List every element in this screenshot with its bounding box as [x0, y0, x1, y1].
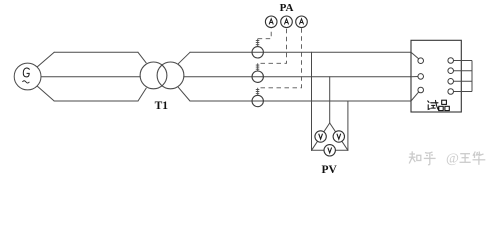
CT tap circle 1: [252, 47, 263, 58]
wire middle left horizontal: [41, 76, 140, 78]
box left terminal 1: [418, 58, 424, 64]
wire G top diagonal: [37, 52, 54, 67]
box left terminal 3: [418, 87, 424, 93]
box right terminal 1: [448, 58, 454, 64]
wire T1 left bottom diagonal: [138, 88, 146, 101]
char zhi: [410, 153, 416, 155]
svg-text:PA: PA: [280, 2, 294, 14]
CT1 winding squiggle: [256, 39, 259, 47]
char wang: [460, 153, 470, 155]
char hu: [425, 152, 433, 153]
char hua: [473, 152, 475, 156]
svg-text:T1: T1: [155, 100, 169, 112]
CT3 winding squiggle: [256, 88, 259, 96]
wire PV drop phase B: [329, 77, 331, 123]
ammeter A1: [265, 16, 277, 28]
wire PV triangle left edge: [312, 123, 330, 150]
wire G bottom diagonal: [37, 86, 54, 101]
CT tap circle 2: [252, 71, 263, 82]
voltmeter V3: [324, 145, 335, 156]
voltmeter V2: [333, 131, 344, 142]
ammeter A3: [296, 16, 308, 28]
ammeter A2: [281, 16, 293, 28]
watermark zhihu @wanghua: [409, 151, 436, 164]
box left terminal tail 2: [411, 76, 418, 78]
wire middle right horizontal: [184, 76, 411, 78]
box right terminal 2: [448, 68, 454, 74]
box right shorting links: [454, 61, 473, 92]
wire T1 left top diagonal: [138, 52, 146, 63]
CT2 winding squiggle: [256, 63, 259, 71]
label pin (Chinese char): [439, 100, 450, 110]
box left terminal tail 1: [411, 52, 419, 59]
wire PV drop phase C: [347, 101, 349, 150]
CT tap circle 3: [252, 95, 263, 106]
svg-text:@: @: [446, 152, 459, 167]
wire PV drop phase A: [311, 52, 313, 150]
dashed link CT1 to ammeter A1: [258, 28, 272, 39]
test object box (shipin): [411, 40, 461, 112]
label shi (Chinese char): [428, 100, 439, 109]
box right terminal 3: [448, 79, 454, 85]
dashed link CT2 to ammeter A2: [261, 28, 287, 64]
wire top-left horizontal: [54, 51, 138, 53]
transformer T1 secondary winding: [157, 62, 184, 89]
svg-text:PV: PV: [322, 164, 338, 176]
voltmeter V1: [315, 131, 326, 142]
wire top-right horizontal: [190, 51, 411, 53]
transformer T1 primary winding: [140, 62, 167, 89]
generator G1: [14, 63, 41, 90]
wire PV triangle bottom edge: [312, 149, 348, 151]
shorting bus vertical: [471, 61, 473, 92]
wire bottom-right horizontal: [190, 100, 411, 102]
wire T1 right bottom diagonal: [178, 87, 190, 101]
wire T1 right top diagonal: [178, 52, 190, 63]
wire bottom-left horizontal: [54, 100, 138, 102]
box left terminal tail 3: [411, 92, 419, 101]
box right terminal 4: [448, 89, 454, 95]
wire PV triangle right edge: [330, 123, 348, 150]
dashed link CT3 to ammeter A3: [261, 28, 302, 88]
box left terminal 2: [418, 74, 424, 80]
